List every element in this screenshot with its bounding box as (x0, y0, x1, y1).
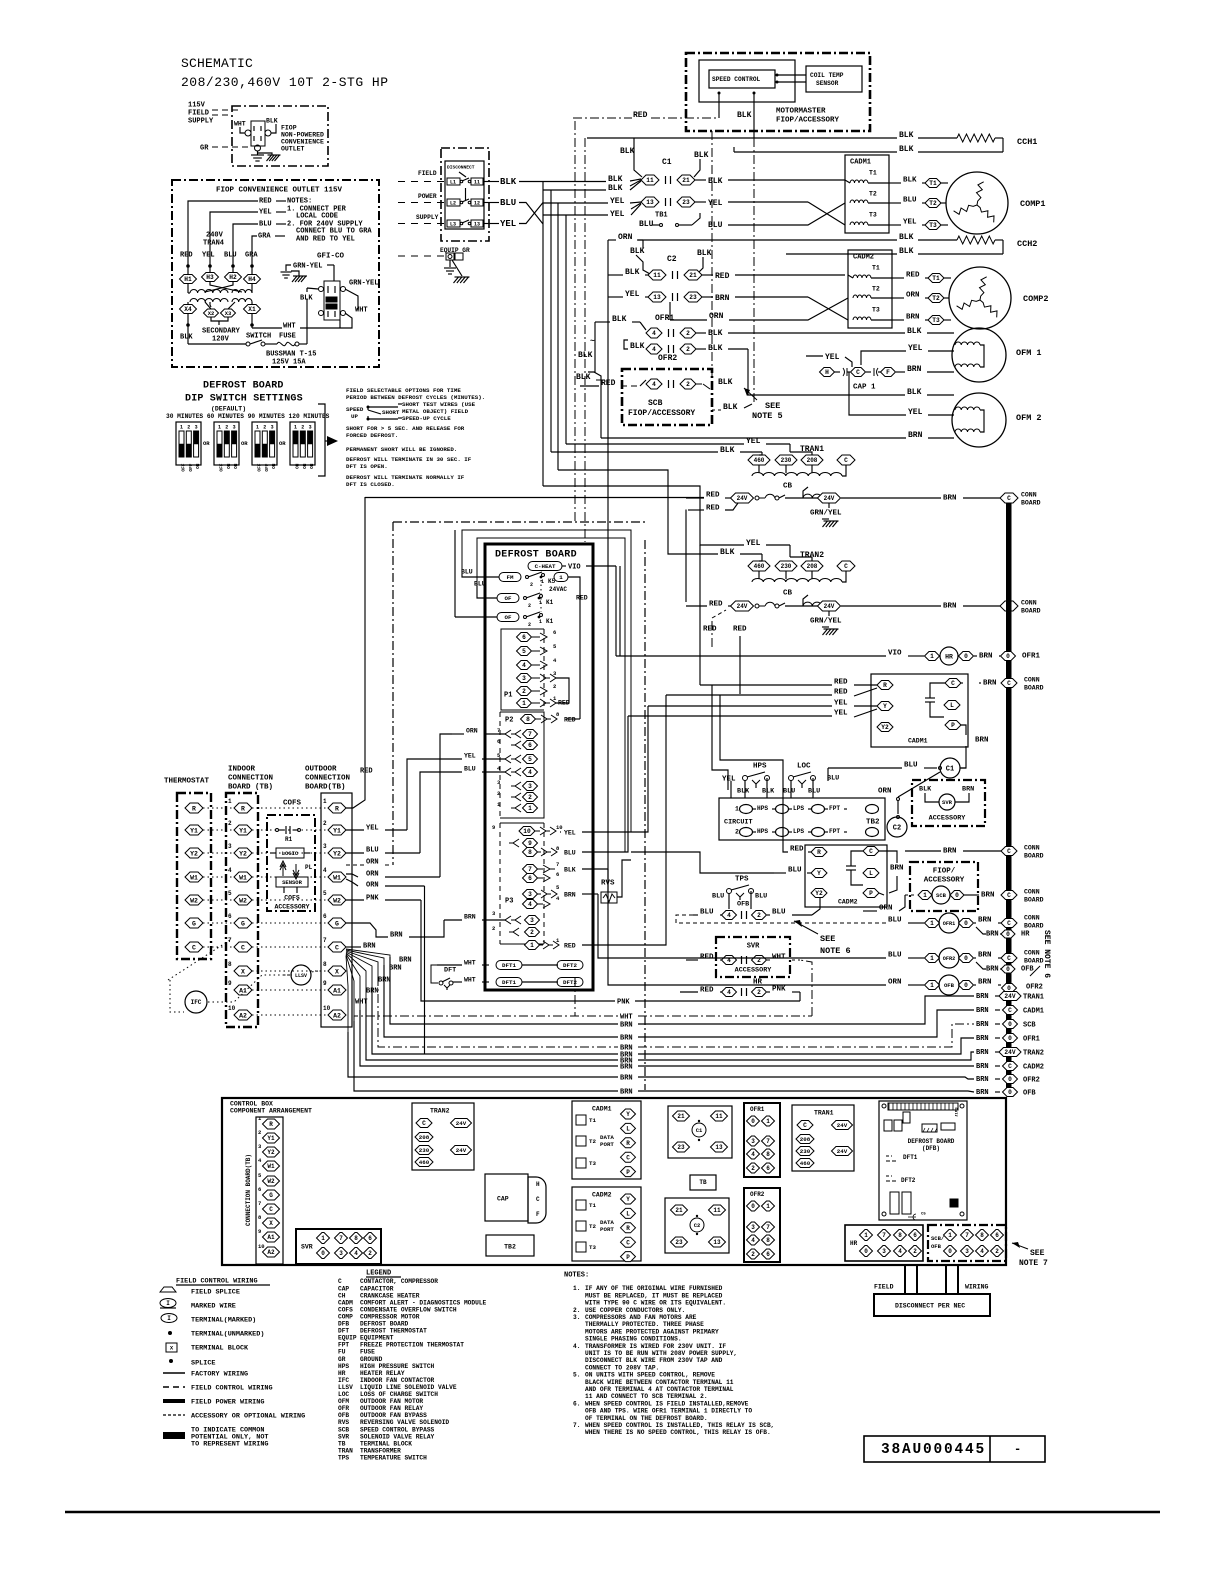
svg-text:24V: 24V (456, 1120, 467, 1127)
svg-text:P2: P2 (505, 717, 513, 725)
svg-text:4: 4 (528, 769, 532, 776)
svg-text:208/230,460V 10T 2-STG HP: 208/230,460V 10T 2-STG HP (181, 75, 389, 90)
box SENSOR (276, 877, 308, 887)
svg-text:CONDENSATE OVERFLOW SWITCH: CONDENSATE OVERFLOW SWITCH (360, 1306, 457, 1313)
wire BRN to OFB hex (976, 962, 986, 969)
svg-text:23: 23 (675, 1239, 683, 1246)
svg-text:2: 2 (530, 582, 533, 588)
svg-text:T1: T1 (932, 275, 940, 282)
terminal 24V tran1 right (818, 493, 841, 503)
wire brn rvs long (598, 894, 803, 958)
svg-text:CONN: CONN (1021, 491, 1037, 498)
svg-text:2: 2 (528, 794, 532, 801)
svg-text:FIOP/: FIOP/ (933, 868, 956, 876)
svg-text:BLU: BLU (783, 787, 795, 795)
svg-text:BLK: BLK (899, 247, 914, 256)
svg-text:C: C (335, 944, 339, 951)
svg-text:SINGLE PHASING CONDITIONS.: SINGLE PHASING CONDITIONS. (585, 1336, 682, 1343)
legend marked wire (160, 1299, 176, 1308)
svg-text:ON UNITS WITH SPEED CONTROL, R: ON UNITS WITH SPEED CONTROL, REMOVE (585, 1372, 715, 1379)
svg-text:24V: 24V (737, 603, 748, 610)
svg-text:BRN: BRN (976, 993, 989, 1001)
legend field splice (160, 1287, 176, 1292)
wire tps drops (728, 893, 730, 909)
pin P3-9 (509, 839, 519, 847)
arrows logic-sensor (280, 861, 299, 879)
circuit breaker tran2 (755, 604, 759, 608)
svg-text:TRAN1: TRAN1 (814, 1109, 834, 1116)
wire X1 to WHT (251, 325, 253, 328)
svg-text:BRN: BRN (943, 603, 957, 611)
wire C1 coil right (960, 767, 966, 769)
contactor coil C2 circle (887, 817, 907, 837)
block HR terminals (845, 1225, 923, 1261)
svg-text:BRN: BRN (906, 314, 920, 322)
wire blu tps to cadm2 (812, 898, 820, 915)
svg-text:DFT1: DFT1 (903, 1154, 918, 1161)
svg-text:3: 3 (965, 1248, 969, 1255)
wire field supply L3 (398, 223, 447, 225)
svg-text:TERMINAL(MARKED): TERMINAL(MARKED) (191, 1316, 256, 1324)
svg-text:TPS: TPS (338, 1455, 349, 1462)
svg-text:6: 6 (766, 1165, 770, 1172)
svg-text:FIELD: FIELD (188, 110, 209, 118)
svg-text:BLK: BLK (718, 378, 733, 387)
svg-text:13: 13 (646, 199, 654, 206)
svg-text:1: 1 (923, 892, 927, 899)
svg-text:6: 6 (528, 875, 532, 882)
terminal SVR 0 (317, 1233, 330, 1244)
svg-text:HR: HR (945, 653, 953, 660)
svg-text:BLK: BLK (625, 268, 640, 277)
svg-text:BLK: BLK (720, 548, 735, 557)
svg-text:460: 460 (419, 1159, 430, 1166)
svg-text:5: 5 (528, 756, 532, 763)
svg-text:FIOP/ACCESSORY: FIOP/ACCESSORY (776, 117, 840, 125)
svg-text:11 AND CONNECT TO SCB TERMINAL: 11 AND CONNECT TO SCB TERMINAL 2. (585, 1393, 708, 1400)
wire YEL from disconnect (483, 223, 499, 225)
svg-text:0: 0 (1008, 1021, 1012, 1028)
svg-text:C: C (869, 848, 873, 855)
svg-text:T2: T2 (872, 285, 880, 292)
svg-text:HR: HR (1021, 931, 1030, 939)
pin P3-6 (523, 874, 538, 883)
svg-text:RED: RED (790, 846, 804, 854)
svg-text:0: 0 (864, 1248, 868, 1255)
svg-text:2: 2 (686, 381, 690, 388)
wire trunk disconnect C (557, 203, 559, 470)
svg-text:PERIOD BETWEEN DEFROST CYCLES: PERIOD BETWEEN DEFROST CYCLES (MINUTES). (346, 394, 485, 401)
svg-text:R: R (192, 805, 196, 812)
svg-text:CAP 1: CAP 1 (853, 384, 876, 392)
terminal OF 2 (497, 613, 519, 622)
svg-text:WIRING: WIRING (965, 1283, 989, 1290)
svg-text:2: 2 (757, 912, 761, 919)
svg-text:CONN: CONN (1024, 676, 1040, 683)
block OFR1 arrangement (744, 1103, 780, 1177)
resistor CCH1 heater (957, 134, 995, 142)
svg-text:BLU: BLU (755, 892, 767, 900)
svg-text:21: 21 (677, 1113, 685, 1120)
svg-text:SCHEMATIC: SCHEMATIC (181, 56, 253, 71)
svg-text:3: 3 (751, 1138, 755, 1145)
svg-text:BRN: BRN (976, 1021, 989, 1029)
svg-text:6: 6 (522, 634, 526, 641)
svg-text:CONN: CONN (1024, 914, 1040, 921)
svg-text:WHEN THERE IS NO SPEED CONTROL: WHEN THERE IS NO SPEED CONTROL, THIS REL… (585, 1429, 771, 1436)
svg-text:230: 230 (419, 1147, 430, 1154)
svg-text:COMP2: COMP2 (1023, 294, 1049, 304)
svg-text:YEL: YEL (834, 700, 848, 708)
svg-text:24VAC: 24VAC (549, 586, 567, 593)
svg-text:FIELD CONTROL WIRING: FIELD CONTROL WIRING (176, 1277, 258, 1285)
wire rvs leads (607, 869, 609, 892)
svg-text:BRN: BRN (620, 1035, 633, 1043)
wire equip gr dash (398, 255, 446, 257)
svg-text:0: 0 (1006, 966, 1010, 973)
svg-text:BRN: BRN (363, 943, 376, 951)
svg-text:ACCESSORY: ACCESSORY (929, 814, 967, 822)
svg-text:7: 7 (882, 1232, 886, 1239)
wire H2 to first winding crossing (205, 281, 233, 292)
svg-text:2: 2 (553, 683, 556, 690)
outlet receptacle symbol (251, 121, 265, 146)
svg-text:BUSSMAN T-15: BUSSMAN T-15 (266, 351, 316, 359)
pin P2-1 (511, 804, 521, 812)
svg-text:7: 7 (766, 1138, 770, 1145)
svg-text:2: 2 (497, 790, 500, 797)
svg-text:BLU: BLU (827, 774, 839, 782)
svg-text:LPS: LPS (793, 805, 804, 812)
svg-text:YEL: YEL (722, 776, 736, 784)
svg-text:BRN: BRN (976, 1035, 989, 1043)
terminal P cadm2 (863, 889, 879, 898)
coil CADM2 T3 (853, 317, 871, 320)
wire defrost of2 left (455, 616, 497, 618)
transformer TRAN4 secondary winding 2 (232, 298, 252, 302)
transformer TRAN2 primary taps (748, 561, 770, 571)
svg-text:OFR2: OFR2 (1023, 1077, 1040, 1085)
wire field supply L1 (398, 181, 447, 183)
connector P3 box (500, 822, 544, 824)
wire X2 X3 to bottom bus (211, 317, 228, 321)
svg-text:6: 6 (323, 913, 327, 920)
svg-text:SHORT: SHORT (382, 409, 400, 416)
svg-text:C: C (241, 944, 245, 951)
svg-text:1: 1 (323, 798, 327, 805)
svg-text:BRN: BRN (907, 365, 922, 374)
terminal Y2 cadm1 (877, 723, 893, 732)
svg-text:BRN: BRN (943, 495, 957, 503)
svg-text:10: 10 (523, 828, 531, 835)
svg-text:C: C (844, 457, 848, 464)
svg-text:2: 2 (228, 820, 232, 827)
legend terminal block (166, 1343, 177, 1352)
svg-text:OFR1: OFR1 (750, 1106, 765, 1113)
svg-text:OF: OF (505, 614, 512, 621)
dip switch block 120 minutes (290, 422, 315, 465)
svg-text:CONNECT BLU TO GRA: CONNECT BLU TO GRA (296, 228, 372, 236)
svg-text:T1: T1 (589, 1202, 596, 1209)
svg-text:OFR: OFR (338, 1405, 349, 1412)
wire GR dashes (212, 146, 248, 148)
svg-text:T2: T2 (869, 190, 877, 197)
svg-text:BOARD: BOARD (1024, 896, 1044, 903)
svg-text:2: 2 (323, 820, 327, 827)
svg-text:0: 0 (321, 1250, 325, 1257)
svg-text:1: 1 (559, 574, 563, 581)
svg-text:13: 13 (653, 294, 661, 301)
svg-text:ON: ON (271, 463, 277, 469)
wire P1 pin3 to pin1 loop (556, 678, 569, 703)
svg-text:R1: R1 (285, 836, 293, 843)
svg-text:OF TERMINAL ON THE DEFROST BOA: OF TERMINAL ON THE DEFROST BOARD. (585, 1415, 708, 1422)
svg-text:RED: RED (700, 987, 714, 995)
svg-text:1.: 1. (573, 1285, 580, 1292)
svg-text:38AU000445: 38AU000445 (881, 1442, 986, 1458)
svg-text:OUTDOOR FAN MOTOR: OUTDOOR FAN MOTOR (360, 1398, 423, 1405)
svg-text:BLK: BLK (762, 787, 775, 795)
svg-text:30 MINUTES 60 MINUTES 90 MINUT: 30 MINUTES 60 MINUTES 90 MINUTES 120 MIN… (166, 413, 330, 420)
svg-text:1: 1 (864, 1232, 868, 1239)
wire hps drops (744, 780, 746, 798)
svg-text:CADM: CADM (338, 1299, 353, 1306)
svg-text:10: 10 (556, 824, 563, 831)
svg-text:EQUIPMENT: EQUIPMENT (360, 1335, 394, 1342)
svg-text:L2: L2 (450, 200, 456, 206)
svg-text:RED: RED (706, 492, 720, 500)
svg-text:YEL: YEL (908, 408, 923, 417)
svg-text:OUTLET: OUTLET (281, 145, 305, 152)
contact R1 cofs (276, 829, 279, 832)
svg-text:2: 2 (995, 1248, 999, 1255)
svg-text:HEATER RELAY: HEATER RELAY (360, 1370, 405, 1377)
svg-text:Y1: Y1 (333, 827, 341, 834)
svg-text:1: 1 (321, 1235, 325, 1242)
svg-text:9: 9 (258, 1228, 261, 1235)
wire svr leads (925, 793, 939, 802)
wire blu ofb long (676, 915, 840, 923)
svg-text:CONNECTION BOARD(TB): CONNECTION BOARD(TB) (245, 1154, 252, 1226)
svg-text:BLK: BLK (708, 177, 723, 186)
svg-text:CADM2: CADM2 (853, 254, 874, 262)
contactor IFC circle (185, 991, 207, 1013)
svg-text:BLK: BLK (180, 334, 193, 342)
transformer TRAN4 primary winding 2 (232, 289, 252, 293)
terminal thermostat W2 (185, 895, 203, 905)
svg-text:7: 7 (766, 1224, 770, 1231)
legend accessory wiring (163, 1414, 185, 1416)
wire C cadm2 row to conn board (905, 850, 941, 852)
svg-text:DATA: DATA (600, 1134, 614, 1141)
svg-text:C2: C2 (694, 1222, 701, 1229)
svg-text:WHT: WHT (464, 959, 476, 966)
svg-text:FIELD SPLICE: FIELD SPLICE (191, 1288, 240, 1296)
switch K5 (526, 576, 529, 579)
svg-text:BLK: BLK (708, 329, 723, 338)
svg-text:4: 4 (354, 1250, 358, 1257)
svg-text:CONN: CONN (1021, 599, 1037, 606)
svg-text:SCB: SCB (936, 892, 947, 899)
svg-text:ON: ON (226, 463, 232, 469)
wire left bus to labels (543, 181, 606, 183)
svg-text:YEL: YEL (908, 344, 923, 353)
transformer TRAN2 secondary winding (803, 602, 831, 606)
pin P3-2 (509, 928, 519, 936)
svg-text:Y2: Y2 (815, 890, 823, 897)
svg-text:VIO: VIO (888, 650, 902, 658)
svg-text:L: L (626, 1211, 630, 1218)
svg-text:CONTROL BOX: CONTROL BOX (230, 1100, 273, 1107)
svg-text:24V: 24V (1004, 1049, 1015, 1056)
svg-text:DFT IS CLOSED.: DFT IS CLOSED. (346, 481, 395, 488)
pin P2-4 (501, 768, 521, 776)
svg-text:C1: C1 (662, 158, 672, 167)
svg-text:COFS: COFS (338, 1306, 353, 1313)
svg-text:G: G (241, 920, 245, 927)
svg-text:TB1: TB1 (655, 212, 668, 220)
svg-text:0: 0 (751, 1118, 755, 1125)
svg-text:LLSV: LLSV (295, 973, 307, 979)
terminal SVR 1 (335, 1233, 348, 1244)
svg-text:FIELD: FIELD (418, 170, 437, 177)
svg-text:OFM 2: OFM 2 (1016, 413, 1042, 423)
svg-text:F: F (536, 1211, 540, 1218)
wire field supply L2 (398, 202, 447, 204)
wire field drop 1 (904, 1265, 906, 1294)
svg-text:G: G (269, 1192, 273, 1199)
module CADM1 box (845, 155, 889, 233)
svg-text:11: 11 (713, 1207, 721, 1214)
enclosure COFS accessory (267, 815, 315, 911)
terminal C conn board 2 (1000, 601, 1018, 611)
svg-text:IFC: IFC (191, 999, 202, 1006)
wires indoor to outdoor dotted (252, 807, 328, 809)
wire BRN tran2 to conn board (841, 605, 941, 607)
svg-text:INDOOR FAN CONTACTOR: INDOOR FAN CONTACTOR (360, 1377, 435, 1384)
terminal X1 (251, 302, 253, 305)
svg-text:2: 2 (528, 622, 531, 628)
svg-text:TRAN2: TRAN2 (1023, 1050, 1044, 1058)
board connection board TB1 (256, 1117, 283, 1264)
svg-text:1: 1 (530, 942, 534, 949)
svg-text:HR: HR (850, 1240, 858, 1247)
svg-text:DISCONNECT: DISCONNECT (447, 165, 475, 171)
legend splice (169, 1359, 173, 1363)
svg-text:TB2: TB2 (866, 819, 880, 827)
svg-text:9: 9 (228, 980, 232, 987)
svg-text:SECONDARY: SECONDARY (202, 328, 241, 336)
board DEFROST BOARD box (485, 544, 593, 990)
svg-text:TB2: TB2 (504, 1243, 516, 1250)
terminal thermostat W1 (185, 872, 203, 882)
enclosure SVR ACCESSORY lower (716, 937, 790, 977)
svg-text:CRANKCASE HEATER: CRANKCASE HEATER (360, 1292, 420, 1299)
pin P3-7 (523, 865, 538, 874)
gfci outlet GFI-CO body (324, 281, 340, 320)
svg-text:YEL: YEL (464, 752, 476, 759)
svg-text:OFR2: OFR2 (943, 956, 955, 962)
svg-text:8: 8 (323, 961, 327, 968)
wire OFM1 BRN row (896, 371, 905, 373)
svg-text:BLK: BLK (564, 866, 576, 873)
node dot X4 bottom (187, 313, 189, 325)
svg-text:BLK: BLK (630, 247, 645, 256)
svg-text:BRN: BRN (986, 966, 999, 974)
svg-text:T3: T3 (872, 306, 880, 313)
svg-text:4: 4 (528, 901, 532, 908)
svg-text:HPS: HPS (753, 763, 767, 771)
svg-text:TPS: TPS (735, 876, 749, 884)
svg-text:X3: X3 (225, 310, 232, 317)
speed-up wires symbol (367, 406, 370, 409)
svg-text:BLK: BLK (266, 117, 278, 124)
wire WHT gfi (340, 313, 352, 328)
svg-text:EQUIP: EQUIP (338, 1335, 357, 1342)
svg-text:0: 0 (1006, 653, 1010, 660)
svg-text:BLK: BLK (694, 151, 709, 160)
pin P2-6 (511, 741, 521, 749)
svg-text:R: R (241, 805, 245, 812)
svg-text:NOTE 5: NOTE 5 (752, 411, 783, 421)
svg-text:ORN: ORN (709, 312, 724, 321)
svg-text:8: 8 (528, 849, 532, 856)
arrow see note 6 (794, 921, 818, 934)
page bottom rule (65, 1511, 1160, 1514)
svg-text:TERMINAL BLOCK: TERMINAL BLOCK (360, 1440, 412, 1447)
svg-text:ORN: ORN (366, 859, 379, 867)
box COIL TEMP SENSOR (806, 66, 862, 92)
wire BRN to HR hex (976, 927, 986, 934)
svg-text:10: 10 (323, 1005, 331, 1012)
svg-text:0: 0 (751, 1203, 755, 1210)
svg-text:GRA: GRA (245, 252, 258, 260)
svg-text:4: 4 (727, 989, 731, 996)
arrow dip switches (327, 436, 338, 446)
svg-text:X: X (269, 1220, 273, 1227)
svg-text:MARKED WIRE: MARKED WIRE (191, 1302, 236, 1310)
svg-text:23: 23 (677, 1144, 685, 1151)
circuit breaker tran1 (755, 496, 759, 500)
svg-text:T2: T2 (932, 295, 940, 302)
svg-text:GR: GR (200, 145, 209, 153)
svg-text:21: 21 (682, 177, 690, 184)
svg-text:ACCESSORY: ACCESSORY (735, 966, 773, 974)
svg-text:8: 8 (354, 1235, 358, 1242)
svg-text:21: 21 (675, 1207, 683, 1214)
svg-text:OFM: OFM (338, 1398, 349, 1405)
svg-text:CCH2: CCH2 (1017, 239, 1037, 249)
svg-text:3: 3 (195, 424, 198, 430)
svg-text:LOSS OF CHARGE SWITCH: LOSS OF CHARGE SWITCH (360, 1391, 438, 1398)
svg-text:GR: GR (338, 1356, 346, 1363)
svg-text:CADM2: CADM2 (592, 1191, 612, 1198)
svg-text:BRN: BRN (620, 1022, 633, 1030)
svg-text:3: 3 (271, 424, 274, 430)
svg-text:11: 11 (646, 177, 654, 184)
svg-text:BOARD (TB): BOARD (TB) (228, 784, 273, 792)
svg-text:TRAN2: TRAN2 (430, 1107, 450, 1114)
svg-text:T2: T2 (929, 200, 937, 207)
pin P3-4 (523, 900, 538, 909)
svg-text:208: 208 (807, 563, 818, 570)
svg-text:4: 4 (727, 912, 731, 919)
svg-text:PNK: PNK (772, 986, 786, 994)
svg-text:RED: RED (558, 699, 570, 706)
svg-text:8: 8 (898, 1232, 902, 1239)
wire trunk dashdot F (584, 138, 586, 542)
svg-text:CADM1: CADM1 (850, 159, 871, 167)
